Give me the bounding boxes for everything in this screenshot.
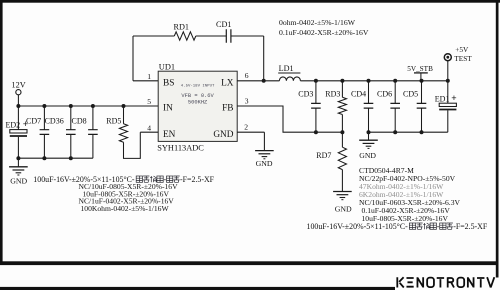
wire 12V to IN rail [17,95,19,106]
wire top left segment [133,35,174,37]
svg-text:IN: IN [163,104,173,114]
svg-text:LD1: LD1 [279,64,294,73]
svg-text:100uF-16V-±20%-5×11-105°C-: 100uF-16V-±20%-5×11-105°C- [307,222,409,231]
svg-text:ED1: ED1 [435,95,450,104]
svg-text:FB: FB [222,104,233,114]
op-amp U1 regulator UD1 SYH113ADC [158,71,237,141]
wire BS pin stub [133,80,158,82]
wire RD1 to CD1 [196,35,226,37]
ground below CD4 [368,132,370,140]
svg-text:CD8: CD8 [72,116,87,125]
svg-text:+: + [451,94,456,104]
wire 5V rail [300,80,447,82]
svg-text:RD7: RD7 [316,151,331,160]
wire FB path [237,106,342,132]
svg-text:EN: EN [163,130,176,140]
svg-text:CD1: CD1 [216,20,231,29]
svg-text:LX: LX [221,79,234,89]
svg-text:GND: GND [213,130,233,140]
svg-text:RD3: RD3 [325,90,340,99]
svg-text:0.1uF-0402-X5R-±20%-16V: 0.1uF-0402-X5R-±20%-16V [279,28,369,37]
wire CD1 to LX drop [231,35,264,37]
wire EN pin stub [140,131,158,133]
svg-text:500KHZ: 500KHZ [188,100,208,106]
svg-text:2: 2 [244,123,248,132]
wire GND pin 2 path [237,131,264,133]
svg-text:1: 1 [147,72,151,81]
wire BS loop left vertical [132,36,134,81]
svg-text:CD3: CD3 [298,90,313,99]
wire LX to LD1 [237,80,279,82]
svg-text:GND: GND [335,204,352,213]
svg-text:RD1: RD1 [174,23,189,32]
ground GND left [17,158,19,167]
svg-text:RD5: RD5 [106,116,121,125]
svg-text:CD5: CD5 [403,90,418,99]
svg-text:100Kohm-0402-±5%-1/16W: 100Kohm-0402-±5%-1/16W [81,204,170,213]
svg-text:UD1: UD1 [159,62,175,71]
ground chip pin2 [263,132,265,150]
wire RD5 to EN [124,132,141,158]
svg-text:5V_STB: 5V_STB [407,65,433,73]
svg-text:4.5V-18V INPUT: 4.5V-18V INPUT [181,85,215,89]
wire BS loop right vertical [263,36,265,81]
wire IN rail [18,105,158,107]
svg-text:GND: GND [256,159,273,168]
svg-text:3: 3 [245,97,249,106]
svg-text:6: 6 [245,71,249,80]
wire GND rail right [369,131,448,133]
svg-text:GND: GND [359,151,376,160]
svg-text:CD36: CD36 [45,116,64,125]
border frame [0,0,500,3]
svg-text:-F=2.5-XF: -F=2.5-XF [453,222,488,231]
svg-text:-: - [437,222,440,231]
svg-text:CD7: CD7 [26,116,41,125]
svg-text:TEST: TEST [454,54,472,63]
svg-text:4: 4 [147,123,151,132]
KENOTRONTV logo [397,277,404,287]
svg-text:SYH113ADC: SYH113ADC [157,143,204,152]
svg-text:VFB = 0.6V: VFB = 0.6V [181,93,214,99]
svg-text:-F=2.5-XF: -F=2.5-XF [180,175,215,184]
svg-text:0ohm-0402-±5%-1/16W: 0ohm-0402-±5%-1/16W [279,18,356,27]
svg-text:CD6: CD6 [377,90,392,99]
ground below RD7 [341,170,343,192]
svg-text:5: 5 [147,97,151,106]
svg-text:12V: 12V [12,80,26,89]
wire GND rail left [18,157,93,159]
svg-text:BS: BS [163,79,174,89]
svg-text:CD4: CD4 [351,90,366,99]
svg-text:GND: GND [10,176,27,185]
